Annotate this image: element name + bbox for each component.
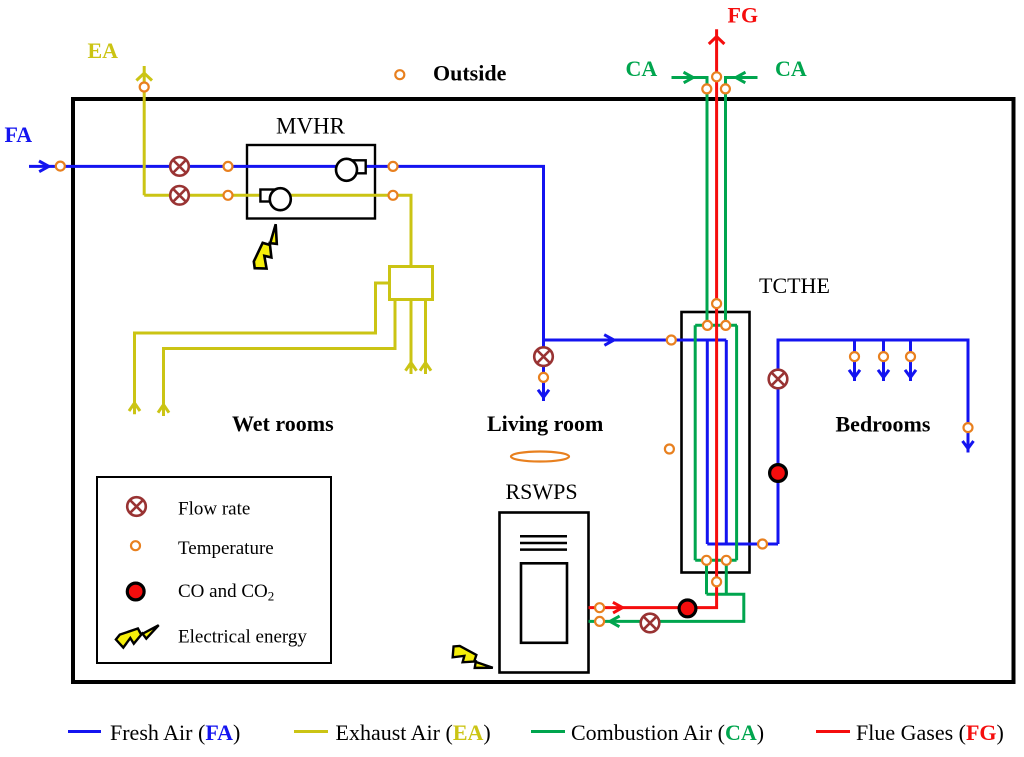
fan supply (square) bbox=[353, 160, 366, 173]
temperature sensor FG above TCTHE bbox=[712, 299, 721, 308]
lightning bolt RSWPS bbox=[448, 637, 493, 683]
wire: manifold duct D bbox=[424, 300, 427, 375]
svg-text:CO and CO2: CO and CO2 bbox=[178, 581, 274, 604]
temperature sensor outside legend bbox=[395, 70, 404, 79]
arrow FG outlet bbox=[709, 37, 725, 44]
wire: manifold duct C bbox=[410, 300, 413, 375]
temperature sensor blue exit TCTHE bbox=[758, 540, 767, 549]
wire: exhaust duct to MVHR and manifold bbox=[144, 195, 411, 267]
arrow bedroom right supply bbox=[963, 441, 974, 449]
wire: combustion air CA left intake bbox=[672, 78, 708, 326]
temperature sensor EA outlet bbox=[140, 83, 149, 92]
arrow FA entry bbox=[39, 161, 49, 172]
svg-text:Outside: Outside bbox=[433, 61, 507, 86]
fan supply (impeller) bbox=[336, 159, 357, 181]
wire: living room branch bbox=[542, 340, 545, 401]
arrow living room supply bbox=[538, 390, 549, 398]
wire: bedroom branch 2 bbox=[882, 340, 885, 381]
temperature sensor bedroom branch 2 bbox=[879, 352, 888, 361]
fan exhaust (square) bbox=[260, 190, 274, 202]
arrow FG from stove bbox=[613, 602, 623, 613]
wire: TCTHE green outer tube bbox=[695, 325, 737, 560]
temperature sensor bedroom right bbox=[964, 423, 973, 432]
svg-text:RSWPS: RSWPS bbox=[506, 479, 578, 504]
RSWPS stove box bbox=[500, 513, 589, 673]
flow rate sensor bedrooms bbox=[769, 370, 788, 389]
svg-text:Flue Gases (FG): Flue Gases (FG) bbox=[856, 720, 1004, 745]
temperature sensor FA before MVHR bbox=[224, 162, 233, 171]
legend temperature symbol bbox=[131, 541, 140, 550]
temperature sensor bedroom branch 3 bbox=[906, 352, 915, 361]
svg-text:CA: CA bbox=[775, 56, 807, 81]
svg-text:EA: EA bbox=[88, 38, 119, 63]
bottom legend flue gases sample bbox=[816, 730, 850, 733]
fan exhaust (impeller) bbox=[270, 188, 291, 210]
temperature sensor FA outside bbox=[56, 162, 65, 171]
MVHR box bbox=[247, 145, 375, 219]
arrow wet room B bbox=[158, 405, 169, 413]
wire: wet room duct B bbox=[164, 300, 396, 417]
arrow manifold duct D bbox=[420, 363, 431, 371]
arrow bedroom branch 1 bbox=[849, 370, 860, 378]
svg-text:Wet rooms: Wet rooms bbox=[232, 411, 334, 436]
temperature sensor TCTHE top right bbox=[721, 321, 730, 330]
legend lightning bolt bbox=[116, 625, 159, 647]
temperature sensor EA before MVHR bbox=[224, 191, 233, 200]
temperature sensor stove FG out bbox=[595, 603, 604, 612]
flow rate sensor on FA entry bbox=[170, 157, 189, 176]
svg-text:Electrical energy: Electrical energy bbox=[178, 626, 307, 647]
svg-text:Fresh Air (FA): Fresh Air (FA) bbox=[110, 720, 240, 745]
svg-text:Exhaust Air (EA): Exhaust Air (EA) bbox=[336, 720, 491, 745]
temperature sensor stove CA in bbox=[595, 617, 604, 626]
wire: bedroom branch 1 bbox=[853, 340, 856, 381]
svg-text:FG: FG bbox=[728, 3, 759, 28]
lightning bolt MVHR bbox=[244, 224, 294, 274]
arrow bedroom branch 3 bbox=[905, 370, 916, 378]
temperature sensor TCTHE bottom left bbox=[702, 556, 711, 565]
temperature sensor CA right top bbox=[721, 84, 730, 93]
wire: TCTHE blue tube walls bbox=[707, 340, 968, 544]
arrow EA outlet bbox=[136, 73, 152, 80]
CO sensor flue bbox=[679, 600, 696, 617]
stove firebox bbox=[521, 563, 567, 643]
building outline bbox=[73, 99, 1014, 682]
temperature sensor TCTHE bottom right bbox=[722, 556, 731, 565]
bottom legend fresh air sample bbox=[68, 730, 101, 733]
svg-text:Living room: Living room bbox=[487, 411, 603, 436]
temperature sensor room ambient left of TCTHE bbox=[665, 445, 674, 454]
arrow CA into stove bbox=[610, 616, 620, 627]
wire: fresh air FA entry and main duct bbox=[29, 166, 726, 340]
temperature sensor EA after MVHR bbox=[389, 191, 398, 200]
TCTHE box bbox=[682, 312, 750, 573]
legend CO symbol bbox=[127, 583, 144, 600]
wire: flue gases FG bbox=[589, 29, 717, 607]
arrow manifold duct C bbox=[406, 363, 417, 371]
svg-text:FA: FA bbox=[5, 122, 33, 147]
flow rate sensor on EA duct bbox=[170, 186, 189, 205]
arrow bedroom branch 2 bbox=[878, 370, 889, 378]
temperature sensor TCTHE top left bbox=[703, 321, 712, 330]
svg-text:Combustion Air (CA): Combustion Air (CA) bbox=[571, 720, 764, 745]
temperature sensor living room duct bbox=[667, 336, 676, 345]
temperature sensor FG top bbox=[712, 72, 721, 81]
exhaust manifold box bbox=[390, 267, 433, 300]
svg-text:MVHR: MVHR bbox=[276, 114, 346, 139]
living room air symbol (ellipse) bbox=[511, 452, 569, 462]
wire: bedroom branch 3 bbox=[909, 340, 912, 381]
stove grill bbox=[520, 536, 567, 549]
arrow CA right bbox=[736, 72, 746, 83]
legend box bbox=[97, 477, 331, 663]
wire: wet room duct A bbox=[135, 283, 390, 414]
flow rate sensor CA return bbox=[641, 614, 660, 633]
bottom legend exhaust air sample bbox=[294, 730, 328, 733]
svg-text:TCTHE: TCTHE bbox=[759, 273, 830, 298]
wire: exhaust air EA outlet bbox=[143, 66, 146, 195]
arrow wet room A bbox=[129, 403, 140, 411]
bottom legend combustion air sample bbox=[531, 730, 565, 733]
temperature sensor FA after MVHR bbox=[389, 162, 398, 171]
svg-text:Flow rate: Flow rate bbox=[178, 499, 250, 520]
svg-text:CA: CA bbox=[626, 56, 658, 81]
wire: combustion air CA right intake bbox=[726, 78, 758, 326]
wire: CA return to stove bbox=[589, 560, 744, 621]
temperature sensor living room branch bbox=[539, 373, 548, 382]
flow rate sensor living room bbox=[534, 347, 553, 366]
svg-text:Temperature: Temperature bbox=[178, 538, 274, 559]
arrow CA left bbox=[684, 72, 694, 83]
temperature sensor FG below TCTHE bbox=[712, 577, 721, 586]
legend flow rate symbol bbox=[127, 497, 146, 516]
svg-text:Bedrooms: Bedrooms bbox=[836, 412, 931, 437]
arrow living room duct bbox=[604, 335, 614, 346]
CO sensor bedrooms duct bbox=[770, 465, 787, 482]
temperature sensor CA left top bbox=[702, 84, 711, 93]
temperature sensor bedroom branch 1 bbox=[850, 352, 859, 361]
